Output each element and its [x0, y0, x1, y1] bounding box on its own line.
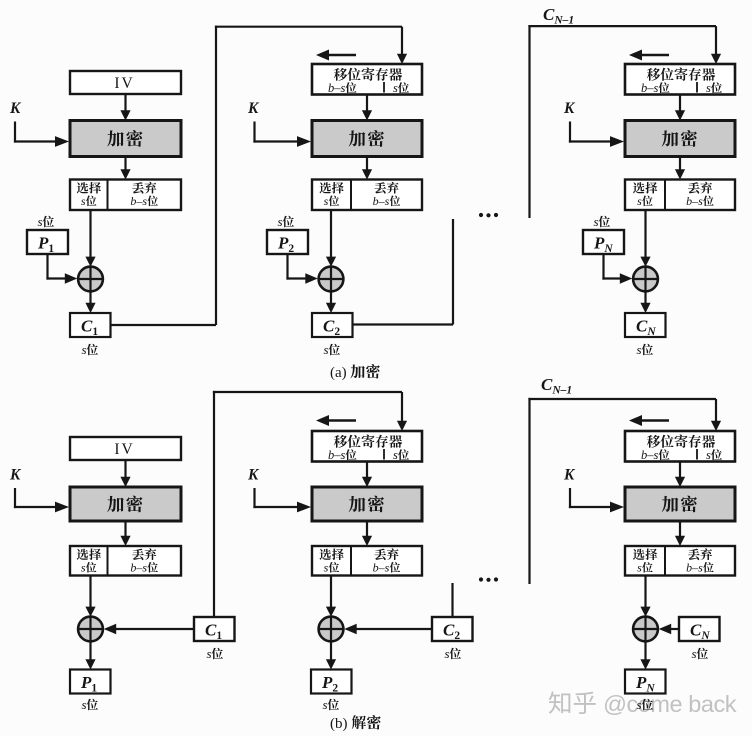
svg-text:s位: s位 [37, 213, 54, 230]
ellipsis dots between stages (a) [479, 213, 483, 217]
wire PN to XOR (a) [602, 254, 604, 280]
svg-text:K: K [247, 467, 260, 484]
wire C1 output feedback to stage-2 shift register (a) [111, 324, 217, 326]
svg-text:b–s位: b–s位 [641, 80, 670, 96]
box P2 (b) [311, 670, 352, 694]
encrypt box 加密 (a) column 3 [625, 121, 735, 157]
svg-text:s位: s位 [324, 193, 340, 209]
wire encrypt to select/discard (b) column 3 [679, 521, 681, 537]
select/discard box 选择|丢弃 (a) column 3 [625, 180, 735, 211]
wire shift-register to encrypt (b) column 2 [366, 462, 368, 479]
svg-text:s位: s位 [206, 645, 223, 662]
ellipsis dots between stages (b) [479, 577, 483, 581]
shift-register box (a) column 3 [625, 64, 735, 95]
XOR circle (a) column 1 [78, 267, 103, 292]
shift-register box (b) column 2 [312, 431, 422, 462]
box P2 (a) [267, 230, 308, 254]
XOR circle (b) column 2 [319, 617, 344, 642]
box IV (a) column 1 [70, 71, 181, 94]
XOR circle (b) column 1 [78, 617, 103, 642]
wire C2 output feedback upward (a) [353, 323, 454, 325]
svg-text:加密: 加密 [662, 492, 699, 517]
shift-register box (b) column 3 [625, 431, 735, 462]
wire K to encrypt (a) column 1 [14, 122, 16, 143]
svg-text:s位: s位 [81, 559, 97, 575]
svg-text:s位: s位 [81, 696, 98, 713]
shift-direction arrow (b) column 2 [327, 419, 356, 422]
select/discard box 选择|丢弃 (a) column 2 [312, 180, 422, 211]
svg-text:K: K [247, 100, 260, 117]
svg-text:s位: s位 [81, 341, 98, 358]
svg-text:b–s位: b–s位 [328, 80, 357, 96]
wire shift-register to encrypt (a) column 2 [366, 95, 368, 112]
select/discard box 选择|丢弃 (b) column 3 [625, 546, 735, 576]
svg-text:s位: s位 [324, 559, 340, 575]
svg-text:K: K [563, 467, 576, 484]
svg-text:b–s位: b–s位 [328, 447, 357, 463]
svg-text:加密: 加密 [349, 492, 386, 517]
select/discard box 选择|丢弃 (b) column 2 [312, 546, 422, 576]
box CN (b) [679, 617, 720, 641]
wire C_N-1 to stage-N shift register (b) [528, 398, 530, 584]
wire K to encrypt (b) column 2 [253, 488, 255, 508]
svg-text:b–s位: b–s位 [686, 559, 714, 575]
box PN (b) [625, 670, 666, 694]
box C1 (b) [194, 617, 235, 641]
svg-text:IV: IV [114, 441, 134, 458]
box P1 (a) [27, 230, 68, 254]
wire P2 to XOR (a) [286, 254, 288, 280]
box C2 (a) [312, 313, 353, 337]
wire XOR to C1 (a) [89, 291, 91, 305]
wire XOR to P1 (b) [89, 641, 91, 661]
svg-text:IV: IV [114, 75, 134, 92]
encrypt box 加密 (b) column 3 [625, 487, 735, 521]
wire IV to encrypt (b) [124, 460, 126, 478]
box CN (a) [625, 313, 666, 337]
svg-text:K: K [563, 100, 576, 117]
wire IV to encrypt (a) [124, 94, 126, 112]
wire shift-register to encrypt (a) column 3 [679, 95, 681, 112]
svg-text:b–s位: b–s位 [130, 193, 158, 209]
svg-text:加密: 加密 [662, 126, 699, 151]
svg-text:s位: s位 [277, 213, 294, 230]
box C1 (a) [70, 313, 111, 337]
XOR circle (a) column 2 [319, 267, 344, 292]
svg-text:加密: 加密 [107, 492, 144, 517]
encrypt box 加密 (b) column 1 [70, 487, 181, 521]
svg-text:s位: s位 [444, 645, 461, 662]
svg-text:s位: s位 [393, 80, 410, 96]
svg-text:加密: 加密 [107, 126, 144, 151]
svg-text:s位: s位 [706, 447, 723, 463]
wire encrypt to select/discard (a) column 3 [679, 157, 681, 171]
wire select to XOR (b) column 3 [644, 576, 646, 608]
wire select to XOR (b) column 2 [330, 576, 332, 608]
svg-text:s位: s位 [691, 645, 708, 662]
XOR circle (b) column 3 [633, 617, 658, 642]
box P1 (b) [70, 670, 111, 694]
svg-text:s位: s位 [637, 559, 653, 575]
shift-direction arrow (a) column 2 [327, 54, 356, 57]
svg-text:s位: s位 [636, 696, 653, 713]
wire C1 up to stage-2 shift register (b) [213, 391, 215, 617]
box C2 (b) [432, 617, 473, 641]
select/discard box 选择|丢弃 (a) column 1 [70, 180, 181, 211]
wire P1 to XOR (a) [46, 254, 48, 280]
svg-text:s位: s位 [706, 80, 723, 96]
box PN (a) [583, 230, 624, 254]
svg-text:K: K [9, 100, 22, 117]
wire C1 to XOR (b) [113, 628, 195, 630]
svg-text:b–s位: b–s位 [373, 193, 401, 209]
wire K to encrypt (b) column 1 [14, 488, 16, 508]
svg-text:(b) 解密: (b) 解密 [330, 712, 381, 733]
wire C2 up toward next stage (b) [451, 583, 453, 618]
shift-register box (a) column 2 [312, 64, 422, 95]
wire XOR to P2 (b) [330, 641, 332, 661]
wire CN to XOR (b) [668, 628, 680, 630]
encrypt box 加密 (a) column 2 [312, 121, 422, 157]
wire XOR to CN (a) [644, 291, 646, 305]
svg-text:K: K [9, 467, 22, 484]
svg-text:加密: 加密 [349, 126, 386, 151]
svg-text:b–s位: b–s位 [130, 559, 158, 575]
wire C2 to XOR (b) [353, 628, 432, 630]
wire C_N-1 to stage-N shift register (a) [528, 25, 530, 218]
wire encrypt to select/discard (a) column 1 [124, 157, 126, 171]
wire K to encrypt (a) column 3 [569, 122, 571, 143]
box IV (b) column 1 [70, 437, 181, 460]
svg-text:s位: s位 [593, 213, 610, 230]
wire select to XOR (b) column 1 [89, 576, 91, 608]
svg-text:s位: s位 [81, 193, 97, 209]
wire K to encrypt (a) column 2 [253, 122, 255, 143]
XOR circle (a) column 3 [633, 267, 658, 292]
svg-text:b–s位: b–s位 [373, 559, 401, 575]
svg-text:s位: s位 [636, 341, 653, 358]
svg-text:b–s位: b–s位 [641, 447, 670, 463]
encrypt box 加密 (a) column 1 [70, 121, 181, 157]
wire encrypt to select/discard (b) column 2 [366, 521, 368, 537]
svg-text:(a) 加密: (a) 加密 [330, 361, 380, 382]
wire select to XOR (a) column 1 [89, 210, 91, 257]
svg-text:b–s位: b–s位 [686, 193, 714, 209]
wire encrypt to select/discard (a) column 2 [366, 157, 368, 171]
wire encrypt to select/discard (b) column 1 [124, 521, 126, 537]
select/discard box 选择|丢弃 (b) column 1 [70, 546, 181, 576]
wire select to XOR (a) column 2 [330, 210, 332, 257]
encrypt box 加密 (b) column 2 [312, 487, 422, 521]
wire shift-register to encrypt (b) column 3 [679, 462, 681, 479]
svg-text:s位: s位 [322, 696, 339, 713]
wire XOR to C2 (a) [330, 291, 332, 305]
shift-direction arrow (a) column 3 [640, 54, 669, 57]
svg-text:s位: s位 [323, 341, 340, 358]
wire XOR to PN (b) [644, 641, 646, 661]
shift-direction arrow (b) column 3 [640, 419, 669, 422]
wire K to encrypt (b) column 3 [569, 488, 571, 508]
svg-text:s位: s位 [637, 193, 653, 209]
wire select to XOR (a) column 3 [644, 210, 646, 257]
svg-text:s位: s位 [393, 447, 410, 463]
